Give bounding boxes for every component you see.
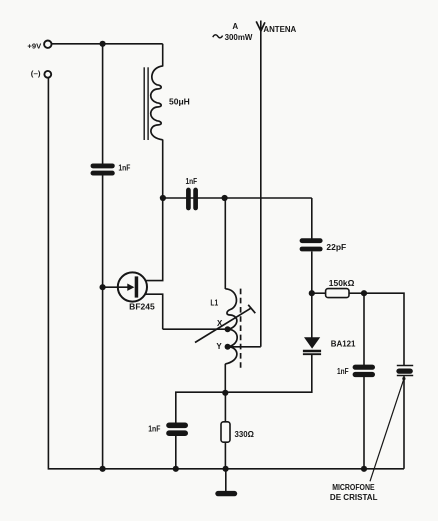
L1 adjust arrow bar	[248, 305, 255, 313]
svg-text:1nF: 1nF	[337, 367, 349, 376]
svg-text:22pF: 22pF	[326, 243, 346, 252]
antenna symbol	[256, 21, 265, 31]
wire +9V rail upper (to C1)	[102, 44, 104, 164]
svg-text:1nF: 1nF	[186, 177, 198, 186]
L1 adjust arrow	[195, 308, 252, 343]
wire 22pF to diode	[311, 252, 313, 339]
node dot gate	[100, 284, 106, 290]
wire 22pF top lead	[311, 198, 313, 239]
svg-text:DE CRISTAL: DE CRISTAL	[330, 493, 378, 502]
wire R2 top lead	[224, 392, 226, 422]
svg-text:MICROFONE: MICROFONE	[332, 483, 375, 492]
svg-text:330Ω: 330Ω	[235, 430, 255, 439]
node dot bottom rail x225	[223, 466, 229, 472]
wire C4 bottom lead	[363, 377, 365, 469]
svg-text:A: A	[232, 22, 238, 31]
microphone crystal capsule	[397, 366, 413, 376]
node dot bottom rail x175	[173, 466, 179, 472]
wire R2 bottom lead	[224, 442, 226, 469]
inductor 50uH core lines	[143, 67, 145, 140]
svg-text:150kΩ: 150kΩ	[329, 279, 355, 288]
wire ground stem	[225, 469, 227, 492]
wire inductor bottom lead	[162, 140, 164, 199]
capacitor C4 1nF	[355, 367, 372, 374]
wire y=392 to C5	[176, 392, 226, 423]
wire drain lead	[138, 198, 163, 281]
wire source lead	[138, 294, 163, 329]
wire diode bottom to corner	[225, 355, 311, 393]
wire Y tap to antenna	[228, 346, 261, 348]
wire top rail +9V	[52, 43, 163, 45]
capacitor C2 1nF (coupling, horizontal)	[188, 190, 195, 208]
capacitor C1 1nF (left rail bypass)	[93, 166, 112, 173]
svg-text:50μH: 50μH	[169, 97, 190, 106]
node dot 150k left	[309, 290, 315, 296]
wire bottom ground rail	[103, 468, 404, 470]
svg-text:Y: Y	[216, 342, 222, 351]
wire L1 bottom lead	[224, 364, 226, 392]
node dot L1 top	[222, 195, 228, 201]
svg-text:1nF: 1nF	[118, 163, 130, 172]
svg-text:300mW: 300mW	[225, 33, 253, 42]
svg-text:1nF: 1nF	[148, 424, 160, 433]
svg-text:BF245: BF245	[129, 303, 155, 312]
inductor 50uH coil	[151, 66, 163, 140]
node dot 150k right	[361, 290, 367, 296]
resistor R1 150k	[326, 289, 349, 298]
svg-text:L1: L1	[210, 298, 218, 307]
terminal +9V	[44, 41, 51, 48]
wire X tap from source	[163, 328, 228, 330]
node dot bottom rail x102	[100, 466, 106, 472]
inductor L1 dashed core	[240, 289, 242, 371]
terminal (-)	[44, 71, 51, 78]
wire ground rail below C1	[102, 173, 104, 469]
node dot top rail	[100, 41, 106, 47]
wire (-) left rail	[48, 78, 102, 469]
svg-text:ANTENA: ANTENA	[263, 25, 296, 34]
svg-text:BA121: BA121	[331, 340, 356, 349]
ground	[218, 491, 235, 496]
wire C5 bottom lead	[175, 436, 177, 469]
capacitor C5 1nF (bottom left)	[169, 425, 185, 433]
node Y tap dot	[225, 344, 231, 350]
wire C4 top lead	[363, 293, 365, 365]
wire to mic branch	[364, 293, 404, 365]
mic pointer line	[370, 379, 404, 482]
svg-text:(–): (–)	[31, 71, 41, 78]
wire 150k left lead	[312, 292, 326, 294]
transistor Q1 channel bar	[135, 276, 139, 297]
node dot C2 left	[160, 195, 166, 201]
inductor L1 coil	[225, 289, 237, 364]
diode D1 BA121 triangle	[304, 337, 320, 348]
capacitor C3 22pF	[302, 241, 320, 249]
node dot bottom rail x364	[361, 466, 367, 472]
resistor R2 330	[221, 422, 230, 442]
wire oscillator rail y=198	[163, 197, 312, 199]
node dot L1 bottom	[222, 390, 228, 396]
wire L1 top lead	[224, 198, 226, 289]
transistor Q1 gate arrow	[127, 284, 134, 291]
diode D1 cathode bars	[303, 350, 321, 352]
node X tap dot	[225, 326, 231, 332]
wire mic bottom lead	[403, 376, 405, 469]
transistor Q1 BF245 circle	[118, 272, 147, 301]
wire inductor top lead	[162, 44, 164, 67]
wire antenna mast	[260, 21, 262, 347]
wire 150k right lead	[349, 292, 364, 294]
wire gate lead	[103, 286, 133, 288]
svg-text:+9V: +9V	[27, 44, 41, 51]
